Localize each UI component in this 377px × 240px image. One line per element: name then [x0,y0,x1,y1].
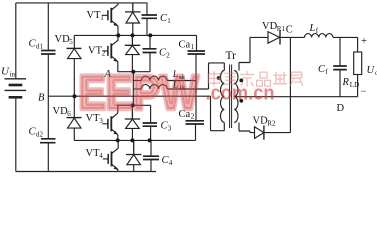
watermark chinese characters [208,71,303,87]
junction node VT3-VT4 switch [116,138,120,142]
diode D4 antiparallel VT4 [126,140,142,154]
diode VD5 [67,47,82,49]
inductor L1k [133,88,141,90]
svg-text:1: 1 [100,14,104,22]
transistor VT4 [103,140,118,171]
transistor VT3 [102,105,118,140]
junction node A bottom [131,103,135,107]
diode D1 antiparallel VT1 [125,3,141,12]
battery Uin cell1 plate short [9,84,23,87]
junction node B clamp [73,94,77,98]
svg-text:1k: 1k [179,85,186,92]
capacitor Ca1 [195,35,198,120]
svg-text:R1: R1 [277,25,286,33]
svg-text:VD: VD [55,34,71,45]
svg-text:VD: VD [53,106,69,117]
resistor RLD [354,52,362,75]
svg-text:ak: ak [179,74,186,81]
wire secondary bottom lead [239,123,255,133]
wire node B horizontal [48,95,210,97]
wire node A column [132,72,134,106]
transformer Tr core [230,65,232,129]
svg-text:4: 4 [99,152,103,160]
svg-text:1: 1 [167,17,171,25]
capacitor C1 [146,3,148,36]
wire Cd column bottom [47,143,49,171]
svg-text:+: + [361,36,367,47]
wire bottom rail [16,171,156,173]
wire VT3 collector junction [117,104,151,106]
wire VD6 to lower junction [73,128,75,140]
diode VDR1 [250,32,280,44]
polarity dot secondary 2 [239,99,243,103]
svg-text:Tr: Tr [226,50,237,62]
svg-text:VT: VT [86,148,101,159]
wire left rail upper [15,3,17,78]
capacitor C2 [149,35,151,71]
junction node C1-C2 [148,33,152,37]
wire VT1-VT2 junction [74,34,196,36]
svg-text:6: 6 [67,110,71,118]
svg-text:3: 3 [168,125,172,133]
svg-text:L: L [309,23,316,34]
svg-text:L: L [172,81,178,91]
transistor VT2 [102,35,118,71]
svg-text:f: f [325,68,328,76]
battery Uin cell2 plate short [9,96,23,99]
svg-text:LD: LD [350,81,359,89]
svg-text:R: R [342,77,350,88]
capacitor Cd1 [41,51,56,55]
svg-text:f: f [316,27,319,35]
wire Cd column middle [47,55,49,139]
svg-text:d2: d2 [36,131,44,139]
inductor Lak [133,80,141,82]
capacitor Ca2 [195,125,197,141]
wire output right bottom [357,75,359,97]
capacitor Cd2 [40,139,56,143]
transformer Tr primary winding [221,71,225,123]
diode D2 antiparallel VT2 [125,35,140,45]
battery Uin cell2 plate long [5,89,27,91]
svg-text:4: 4 [169,159,173,167]
wire clamp column upper [73,35,75,48]
svg-text:R2: R2 [267,120,276,128]
junction node C3-C4 [148,138,152,142]
svg-text:−: − [361,87,367,98]
transistor VT1 [102,3,118,36]
svg-text:d1: d1 [36,43,44,51]
capacitor C3 [150,105,152,140]
transformer Tr secondary winding [234,71,238,123]
wire secondary top lead [239,37,250,70]
inductor Lf [305,34,333,38]
wire output right top [357,37,359,52]
wire left rail lower [15,99,17,172]
wire VD5 to B [73,59,75,118]
svg-text:2: 2 [102,50,106,58]
wire top rail [16,2,148,4]
svg-text:2: 2 [166,52,170,60]
svg-text:5: 5 [69,38,73,46]
svg-text:1: 1 [191,43,195,51]
wire VT3-VT4 junction [74,139,195,141]
capacitor C4 [150,140,152,171]
wire VT2 emitter junction [118,71,150,73]
label Lak [172,70,186,92]
polarity dot secondary 1 [239,79,243,83]
wire node C vertical [289,37,291,132]
capacitor Cd1 lead top [47,3,49,50]
polarity dot primary [217,76,221,80]
diode VDR2 [255,127,264,139]
svg-text:B: B [38,93,45,104]
battery Uin cell1 plate long [5,78,27,80]
svg-text:VD: VD [262,21,278,32]
wire primary return [211,96,225,131]
wire output bottom rail [234,96,357,98]
svg-text:Ca: Ca [179,40,191,51]
wire inductor join [196,63,224,89]
svg-text:VD: VD [253,116,269,127]
junction node VT1-VT2 switch [116,33,120,37]
capacitor Cf [339,37,341,96]
svg-text:L: L [172,70,178,80]
svg-text:VT: VT [87,10,102,21]
diode VD6 [67,117,82,119]
junction node D3-D4 [130,138,134,142]
svg-text:C: C [286,25,293,36]
svg-text:D: D [337,103,345,114]
diode D3 antiparallel VT3 [125,105,140,119]
svg-text:in: in [10,71,16,79]
junction node D1-D2 [131,33,135,37]
junction node A [131,70,135,74]
svg-text:VT: VT [88,46,103,57]
